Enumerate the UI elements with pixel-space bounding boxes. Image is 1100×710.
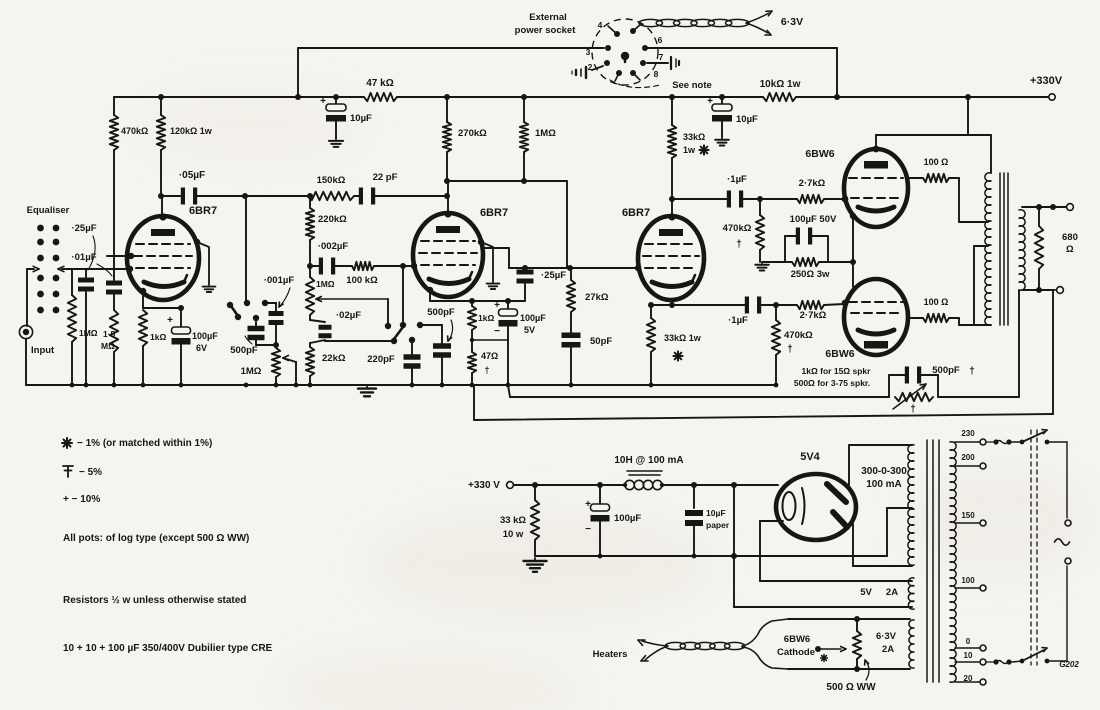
svg-text:5V: 5V — [860, 587, 872, 598]
svg-text:− 5%: − 5% — [79, 467, 102, 478]
svg-text:†: † — [736, 239, 742, 250]
svg-text:+: + — [167, 315, 173, 326]
svg-text:470kΩ: 470kΩ — [784, 330, 813, 341]
svg-text:100µF: 100µF — [520, 313, 546, 323]
svg-text:2A: 2A — [882, 644, 894, 655]
svg-text:·02µF: ·02µF — [336, 310, 361, 321]
svg-text:1kΩ: 1kΩ — [478, 313, 494, 323]
svg-text:33kΩ 1w: 33kΩ 1w — [664, 333, 702, 343]
svg-text:+ − 10%: + − 10% — [63, 494, 100, 505]
svg-text:33 kΩ: 33 kΩ — [500, 515, 526, 526]
svg-text:20: 20 — [964, 674, 973, 683]
svg-text:200: 200 — [961, 453, 975, 462]
svg-text:10: 10 — [964, 651, 973, 660]
svg-text:470kΩ: 470kΩ — [723, 223, 752, 234]
svg-text:100µF: 100µF — [614, 513, 641, 524]
svg-text:Resistors ½ w unless otherwise: Resistors ½ w unless otherwise stated — [63, 595, 246, 606]
svg-text:·05µF: ·05µF — [179, 170, 205, 181]
svg-text:10 w: 10 w — [503, 529, 524, 540]
svg-text:250Ω 3w: 250Ω 3w — [791, 269, 830, 280]
svg-text:·002µF: ·002µF — [318, 241, 348, 252]
svg-text:1MΩ: 1MΩ — [241, 366, 262, 377]
svg-text:100 kΩ: 100 kΩ — [346, 275, 378, 286]
svg-text:2·7kΩ: 2·7kΩ — [799, 178, 826, 189]
svg-text:150kΩ: 150kΩ — [317, 175, 346, 186]
svg-text:50pF: 50pF — [590, 336, 612, 347]
svg-text:47Ω: 47Ω — [481, 351, 498, 361]
svg-text:33kΩ: 33kΩ — [683, 132, 705, 142]
svg-text:270kΩ: 270kΩ — [458, 128, 487, 139]
svg-text:1w: 1w — [683, 145, 696, 155]
svg-text:27kΩ: 27kΩ — [585, 292, 609, 303]
svg-text:5V4: 5V4 — [800, 451, 820, 463]
svg-text:1MΩ: 1MΩ — [316, 279, 335, 289]
svg-text:10µF: 10µF — [350, 113, 372, 124]
svg-text:1MΩ: 1MΩ — [535, 128, 556, 139]
svg-text:500Ω for 3-75 spkr.: 500Ω for 3-75 spkr. — [794, 378, 870, 388]
svg-text:6BW6: 6BW6 — [825, 348, 854, 360]
svg-text:See note: See note — [672, 80, 712, 91]
svg-text:300-0-300: 300-0-300 — [861, 466, 907, 477]
svg-text:1kΩ for 15Ω spkr: 1kΩ for 15Ω spkr — [802, 366, 872, 376]
svg-text:22 pF: 22 pF — [373, 172, 398, 183]
svg-text:G202: G202 — [1059, 660, 1079, 669]
svg-text:·1µF: ·1µF — [728, 315, 748, 326]
svg-text:†: † — [484, 365, 489, 375]
svg-text:+: + — [707, 96, 713, 107]
svg-text:6BR7: 6BR7 — [189, 205, 217, 217]
svg-text:†: † — [787, 344, 793, 355]
svg-text:+: + — [585, 499, 591, 510]
svg-text:1kΩ: 1kΩ — [150, 332, 166, 342]
svg-text:1MΩ: 1MΩ — [79, 328, 98, 338]
svg-text:100 Ω: 100 Ω — [924, 297, 949, 307]
svg-text:100: 100 — [961, 576, 975, 585]
svg-text:230: 230 — [961, 429, 975, 438]
svg-text:−: − — [494, 326, 500, 337]
svg-text:100 Ω: 100 Ω — [924, 157, 949, 167]
svg-text:·01µF: ·01µF — [71, 252, 96, 263]
svg-text:100 mA: 100 mA — [866, 479, 902, 490]
svg-text:6BR7: 6BR7 — [480, 207, 508, 219]
svg-text:†: † — [910, 404, 916, 415]
svg-text:2A: 2A — [886, 587, 898, 598]
svg-text:120kΩ 1w: 120kΩ 1w — [170, 126, 213, 136]
svg-text:·1µF: ·1µF — [727, 174, 747, 185]
svg-text:6V: 6V — [196, 343, 207, 353]
svg-text:10H @ 100 mA: 10H @ 100 mA — [614, 455, 683, 466]
svg-text:500pF: 500pF — [230, 345, 258, 356]
svg-text:7: 7 — [659, 52, 664, 62]
svg-text:1·5: 1·5 — [103, 329, 116, 339]
svg-text:·25µF: ·25µF — [71, 223, 96, 234]
svg-text:150: 150 — [961, 511, 975, 520]
svg-text:6: 6 — [658, 35, 663, 45]
svg-text:220pF: 220pF — [367, 354, 395, 365]
svg-text:4: 4 — [598, 20, 603, 30]
svg-text:6·3V: 6·3V — [876, 631, 897, 642]
svg-text:500 Ω WW: 500 Ω WW — [826, 682, 876, 693]
svg-text:220kΩ: 220kΩ — [318, 214, 347, 225]
svg-text:Cathode: Cathode — [777, 647, 815, 658]
svg-text:Input: Input — [31, 345, 55, 356]
svg-text:+330 V: +330 V — [468, 480, 500, 491]
svg-text:3: 3 — [586, 47, 591, 57]
svg-text:+330V: +330V — [1030, 75, 1063, 87]
svg-text:47 kΩ: 47 kΩ — [366, 78, 393, 89]
svg-text:External: External — [529, 12, 567, 23]
svg-text:500pF: 500pF — [932, 365, 960, 376]
svg-text:8: 8 — [654, 69, 659, 79]
svg-text:2·7kΩ: 2·7kΩ — [800, 310, 827, 321]
svg-text:5V: 5V — [524, 325, 535, 335]
svg-text:·001µF: ·001µF — [264, 275, 294, 286]
svg-text:100µF: 100µF — [192, 331, 218, 341]
svg-text:0: 0 — [966, 637, 971, 646]
svg-text:All pots: of log type (except: All pots: of log type (except 500 Ω WW) — [63, 533, 249, 544]
svg-text:470kΩ: 470kΩ — [121, 126, 148, 136]
svg-text:6BW6: 6BW6 — [805, 148, 834, 160]
svg-text:6·3V: 6·3V — [781, 16, 803, 28]
svg-text:10kΩ 1w: 10kΩ 1w — [760, 79, 801, 90]
svg-text:− 1% (or matched within 1%): − 1% (or matched within 1%) — [77, 438, 212, 449]
svg-text:22kΩ: 22kΩ — [322, 353, 346, 364]
svg-text:+: + — [494, 300, 500, 311]
svg-text:†: † — [969, 366, 975, 377]
svg-text:paper: paper — [706, 520, 730, 530]
svg-text:Equaliser: Equaliser — [27, 205, 70, 216]
svg-text:MΩ: MΩ — [101, 341, 115, 351]
svg-text:Heaters: Heaters — [593, 649, 628, 660]
svg-text:6BW6: 6BW6 — [784, 634, 810, 645]
svg-text:500pF: 500pF — [427, 307, 455, 318]
svg-text:100µF 50V: 100µF 50V — [790, 214, 837, 225]
svg-text:power socket: power socket — [515, 25, 577, 36]
svg-text:+: + — [320, 96, 326, 107]
svg-text:10 + 10 + 100 µF 350/400V D: 10 + 10 + 100 µF 350/400V Dubilier type … — [63, 643, 273, 654]
svg-text:10µF: 10µF — [736, 114, 758, 125]
svg-text:680: 680 — [1062, 232, 1078, 243]
svg-text:−: − — [585, 524, 591, 535]
svg-text:10µF: 10µF — [706, 508, 726, 518]
svg-text:Ω: Ω — [1066, 244, 1074, 255]
svg-text:·25µF: ·25µF — [541, 270, 566, 281]
svg-text:6BR7: 6BR7 — [622, 207, 650, 219]
